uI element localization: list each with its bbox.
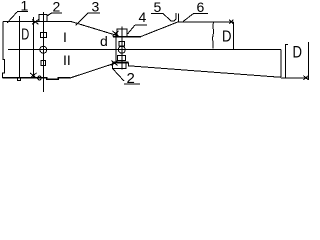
svg-text:1: 1	[21, 0, 29, 14]
svg-text:D: D	[293, 43, 303, 62]
svg-text:D: D	[21, 27, 29, 44]
svg-text:3: 3	[92, 0, 100, 15]
svg-text:2: 2	[53, 0, 61, 15]
svg-text:2: 2	[127, 70, 135, 87]
svg-text:d: d	[100, 33, 108, 49]
svg-text:D: D	[222, 29, 232, 46]
svg-text:I: I	[63, 29, 67, 45]
svg-text:II: II	[63, 52, 71, 68]
svg-text:5: 5	[154, 0, 162, 15]
svg-text:6: 6	[197, 0, 205, 15]
svg-text:4: 4	[139, 9, 147, 25]
